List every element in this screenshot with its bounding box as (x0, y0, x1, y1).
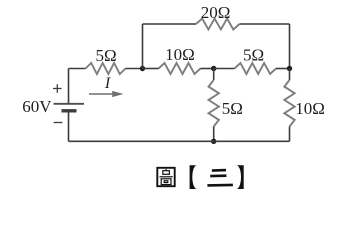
caption glyph: 三 (three) (207, 170, 233, 185)
node A junction dot (140, 66, 145, 71)
svg-text:10Ω: 10Ω (295, 99, 325, 118)
wire: R2 to node B (201, 68, 214, 70)
current arrow (89, 91, 124, 97)
wire: bottom rail (69, 140, 290, 142)
svg-text:I: I (104, 75, 111, 92)
wire: top branch right segment (240, 23, 290, 25)
resistor R5 5ohm vertical middle (209, 80, 219, 127)
wire: node A to R2 (143, 68, 159, 70)
wire: R1 to node A (126, 68, 143, 70)
wire: left rail from main wire down to battery top plate (68, 69, 70, 104)
resistor R2 10ohm horizontal middle (159, 63, 201, 74)
resistor R4 20ohm top branch (196, 19, 240, 30)
node B junction dot (211, 66, 216, 71)
svg-text:10Ω: 10Ω (165, 45, 195, 64)
node D junction dot (bottom of R5) (211, 139, 216, 144)
resistor R1 5ohm horizontal left (86, 63, 126, 74)
wire: node B to R3 (214, 68, 235, 70)
resistor R3 5ohm horizontal right (235, 63, 277, 74)
svg-text:5Ω: 5Ω (96, 46, 117, 65)
svg-text:5Ω: 5Ω (222, 99, 243, 118)
battery minus sign (54, 122, 63, 124)
wire: right rail main wire down to R6 (289, 69, 291, 81)
wire: battery bottom plate down to bottom wire (68, 111, 70, 142)
resistor R6 10ohm vertical right (284, 80, 294, 127)
battery B1 top plate (positive, long) (54, 103, 85, 105)
caption glyph: left lenticular bracket (190, 165, 197, 189)
battery B1 bottom plate (negative, short thick) (62, 109, 77, 112)
svg-text:60V: 60V (22, 97, 52, 116)
caption glyph: 圖 (figure) (157, 168, 174, 186)
wire: node B down to R5 (213, 69, 215, 81)
wire: node A up to top branch (142, 24, 144, 69)
wire: R5 down to bottom wire (213, 127, 215, 142)
svg-text:5Ω: 5Ω (243, 45, 264, 64)
wire: R6 down to bottom right corner (289, 127, 291, 142)
wire: top branch left segment (143, 23, 197, 25)
wire: top branch down to main wire (right rail upper) (289, 24, 291, 69)
wire: R3 to right rail (276, 68, 290, 70)
node C junction dot (right rail on main wire) (287, 66, 292, 71)
wire: main top horizontal (left rail corner to R1) (69, 68, 86, 70)
battery plus sign (53, 84, 62, 93)
svg-text:20Ω: 20Ω (201, 3, 231, 22)
caption glyph: right lenticular bracket (236, 165, 243, 189)
